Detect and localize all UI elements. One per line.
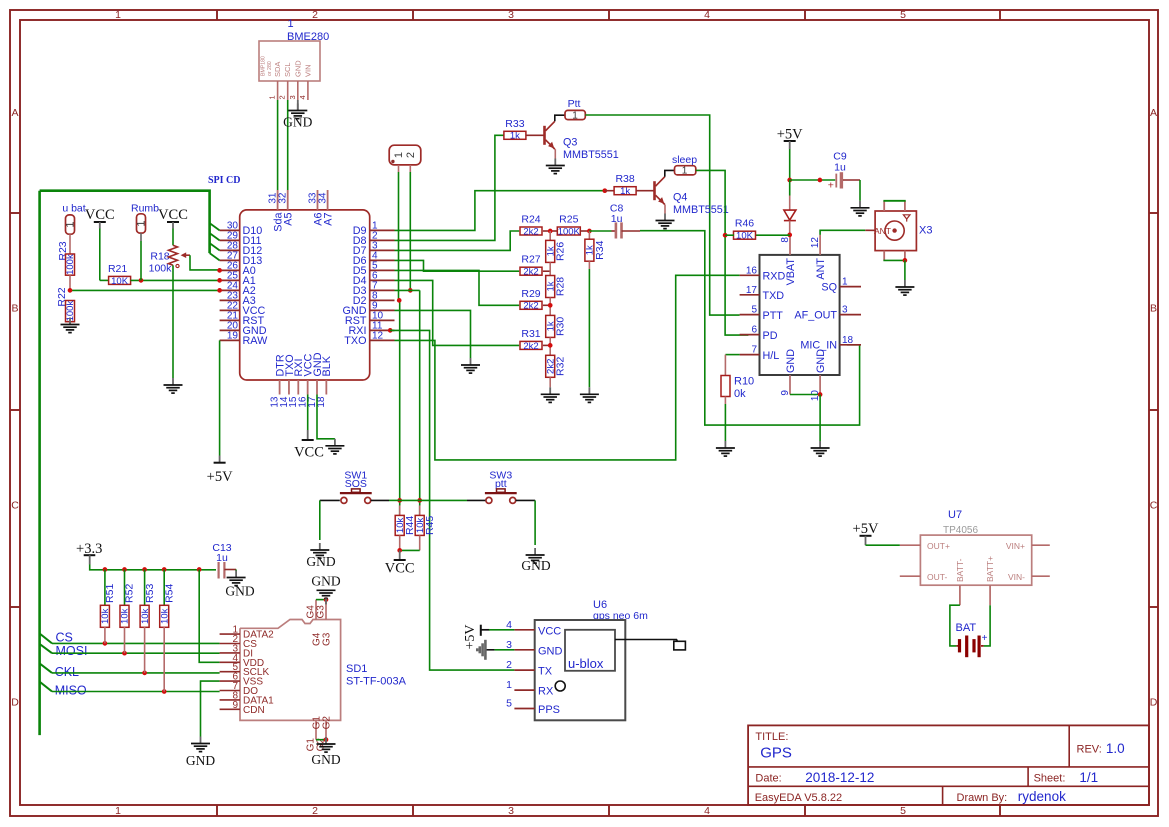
svg-text:R31: R31 — [521, 328, 540, 340]
wire MCU pin17 to ground — [317, 395, 335, 439]
wire D4 to R31 — [395, 280, 520, 345]
wire VCC1 to R21 — [99, 229, 101, 281]
wire sleep to R46 junction and radio PD — [696, 170, 749, 335]
svg-text:R53: R53 — [144, 584, 156, 603]
svg-text:10k: 10k — [159, 608, 170, 624]
wire TXO to radio RXD — [395, 275, 740, 460]
net MOSI — [40, 627, 220, 658]
svg-text:7: 7 — [751, 345, 757, 356]
ground MCU pin17 — [325, 439, 344, 454]
resistor R32 2k2 — [545, 355, 566, 377]
svg-text:2: 2 — [506, 659, 512, 671]
battery charger U7 TP4056 — [920, 509, 1031, 585]
svg-text:R54: R54 — [163, 584, 175, 603]
svg-text:R33: R33 — [505, 118, 524, 130]
wire D3 to R45 SW3 column — [395, 290, 423, 515]
svg-text:GND: GND — [283, 115, 312, 130]
svg-text:2: 2 — [312, 805, 318, 817]
svg-text:Date:: Date: — [755, 773, 781, 785]
svg-text:R51: R51 — [104, 584, 116, 603]
svg-text:MISO: MISO — [55, 684, 87, 698]
svg-text:GND: GND — [815, 349, 827, 373]
svg-text:R45: R45 — [424, 516, 436, 535]
wire C13 to ground — [235, 570, 237, 572]
antenna connector X3 — [874, 201, 932, 251]
svg-text:GND: GND — [306, 554, 335, 569]
ground at BME280 pin3 — [297, 100, 299, 110]
svg-text:R27: R27 — [521, 254, 540, 266]
svg-text:A7: A7 — [322, 213, 334, 226]
svg-text:Ptt: Ptt — [568, 98, 581, 110]
radio module box — [760, 255, 840, 375]
svg-text:X3: X3 — [919, 225, 932, 237]
svg-text:GND: GND — [538, 645, 563, 657]
title block — [748, 725, 1149, 805]
svg-text:BATT+: BATT+ — [985, 556, 995, 582]
MCU top pins 31-34 — [267, 190, 334, 232]
wire +3.3 rail — [90, 565, 216, 572]
MCU bottom pins 13-18 — [269, 352, 333, 407]
wire R10 to ground — [724, 397, 726, 442]
svg-text:R28: R28 — [555, 277, 567, 296]
svg-text:TX: TX — [538, 666, 553, 678]
resistor R53 10k — [140, 570, 156, 628]
svg-text:5: 5 — [900, 9, 906, 21]
wire R18 bottom to ground — [172, 265, 174, 378]
resistor R21 10K — [108, 263, 131, 287]
svg-text:C: C — [1150, 500, 1158, 512]
svg-text:100K: 100K — [558, 226, 581, 237]
svg-text:1: 1 — [572, 110, 578, 121]
resistor R30 1k — [545, 315, 566, 337]
GPS module U6 gps neo 6m — [535, 599, 686, 720]
wire +5V to GPS VCC — [489, 629, 514, 631]
svg-text:OUT-: OUT- — [927, 572, 947, 582]
svg-text:VIN-: VIN- — [1008, 572, 1025, 582]
resistor R34 1k — [585, 231, 606, 261]
svg-text:2k2: 2k2 — [523, 301, 538, 312]
svg-text:GND: GND — [311, 752, 340, 767]
svg-text:1u: 1u — [834, 162, 846, 174]
svg-text:u-blox: u-blox — [568, 656, 604, 671]
ground below SD1 — [311, 737, 340, 767]
svg-text:4: 4 — [704, 805, 710, 817]
resistor R44 10k — [395, 505, 416, 535]
wire connector pin1 to D2 and SW1 — [397, 172, 402, 515]
resistor R23 100k — [57, 234, 76, 275]
wire R21 to A1 with Rumb — [131, 278, 222, 283]
wire C8 to MIC_IN — [640, 231, 860, 425]
power flag +5V TP4056 — [853, 521, 879, 545]
ground above SD1 — [311, 574, 340, 605]
wire R38 to Q4 base — [636, 190, 655, 192]
ground below R34 — [580, 387, 599, 402]
svg-text:MMBT5551: MMBT5551 — [563, 149, 619, 161]
wire R44 R45 bottoms to VCC — [397, 535, 419, 552]
capacitor C9 1u polarized — [828, 151, 860, 192]
svg-text:EasyEDA V5.8.22: EasyEDA V5.8.22 — [755, 792, 842, 804]
wire R31 to chain with junction — [543, 337, 553, 355]
svg-text:VBAT: VBAT — [785, 258, 797, 286]
wire RAW to +5V — [219, 340, 221, 455]
svg-text:u bat: u bat — [62, 203, 85, 215]
svg-text:VCC: VCC — [158, 207, 188, 223]
resistor R31 2k2 — [520, 328, 542, 352]
svg-text:B: B — [1150, 303, 1157, 315]
resistor R26 1k — [545, 231, 566, 262]
svg-text:10K: 10K — [111, 276, 129, 287]
svg-text:G3: G3 — [316, 605, 327, 619]
svg-text:32: 32 — [278, 192, 289, 204]
svg-text:ANT: ANT — [815, 258, 827, 280]
wire D8 to R33 — [395, 135, 505, 240]
chain segment R26-R28 — [549, 262, 551, 275]
svg-text:GND: GND — [225, 584, 254, 599]
switch SW1 SOS — [340, 469, 372, 503]
net MISO — [40, 627, 220, 698]
svg-text:1: 1 — [115, 805, 121, 817]
svg-text:1: 1 — [842, 277, 848, 288]
svg-text:MMBT5551: MMBT5551 — [673, 204, 729, 216]
svg-text:1.0: 1.0 — [1106, 741, 1125, 756]
svg-text:R30: R30 — [555, 317, 567, 336]
svg-text:1: 1 — [506, 679, 512, 691]
svg-text:R24: R24 — [521, 214, 540, 226]
wire SW1 left to ground — [320, 500, 340, 540]
svg-text:1/1: 1/1 — [1079, 770, 1098, 785]
svg-text:3: 3 — [508, 805, 514, 817]
svg-text:4: 4 — [704, 9, 710, 21]
power flag VCC left1 — [85, 207, 115, 229]
svg-text:G3: G3 — [322, 632, 333, 646]
wire X3 shield to ground — [883, 251, 907, 280]
svg-text:19: 19 — [227, 331, 239, 342]
ground MCU pin9 net — [461, 358, 480, 373]
svg-text:AF_OUT: AF_OUT — [794, 309, 837, 321]
wire C9 to ground — [859, 180, 861, 201]
svg-text:ANT: ANT — [874, 226, 891, 236]
svg-text:VIN+: VIN+ — [1006, 541, 1025, 551]
ground arrow GPS GND — [477, 640, 514, 660]
radio right pins SQ AF_OUT MIC_IN — [794, 277, 861, 352]
capacitor C13 1u — [212, 542, 236, 579]
power flag +5V left — [207, 456, 233, 486]
TP4056 pins — [900, 545, 1050, 605]
wire BATT- to battery — [950, 605, 960, 646]
junction VBAT R46 — [787, 233, 792, 238]
transistor Q3 MMBT5551 — [545, 121, 619, 161]
svg-text:R25: R25 — [559, 214, 578, 226]
resistor R10 0k — [721, 376, 754, 401]
svg-text:R52: R52 — [124, 584, 136, 603]
connector Rumb — [131, 203, 159, 234]
power flag VCC below MCU — [294, 430, 324, 460]
power flag VCC below R44 — [385, 550, 415, 576]
svg-text:REV:: REV: — [1077, 744, 1102, 756]
svg-text:BATT-: BATT- — [955, 558, 965, 582]
svg-text:VCC: VCC — [294, 444, 324, 460]
svg-text:RAW: RAW — [243, 335, 269, 347]
power flag VCC left2 — [158, 207, 188, 229]
SD1 left pins 1-9 — [220, 625, 275, 716]
svg-text:D: D — [1150, 697, 1158, 709]
ground below R32 — [541, 387, 560, 402]
ground below R18 — [164, 378, 183, 393]
svg-text:or 280: or 280 — [267, 61, 273, 76]
svg-text:2: 2 — [405, 152, 417, 158]
svg-text:R26: R26 — [555, 242, 567, 261]
wire SW3 left lead — [467, 499, 485, 501]
ground below R22 — [61, 318, 80, 333]
svg-text:1: 1 — [135, 220, 147, 226]
svg-text:SQ: SQ — [821, 281, 837, 293]
sensor module BME280 — [259, 18, 329, 81]
wire BME280 SDA to MCU pin31 — [277, 100, 279, 190]
wire BATT+ to battery — [984, 605, 991, 646]
svg-text:5: 5 — [506, 698, 512, 710]
svg-text:C: C — [11, 500, 19, 512]
wire MCU GND9 to ground — [395, 310, 471, 358]
svg-text:SOS: SOS — [345, 478, 367, 490]
svg-text:RX: RX — [538, 686, 554, 698]
svg-text:Rumb: Rumb — [131, 203, 159, 215]
svg-text:10k: 10k — [120, 608, 131, 624]
connector J 2pin — [389, 145, 421, 172]
SD1 bottom pins G1 G2 — [306, 716, 333, 752]
svg-text:SCL: SCL — [283, 62, 292, 77]
svg-text:9: 9 — [780, 390, 791, 396]
svg-text:R34: R34 — [594, 240, 606, 259]
wire BME280 SCL to MCU pin32 — [287, 100, 289, 190]
switch SW3 ptt — [485, 469, 517, 503]
wire VCC2 to R18 — [172, 229, 174, 246]
svg-text:OUT+: OUT+ — [927, 541, 950, 551]
svg-text:1: 1 — [268, 95, 277, 99]
svg-text:D: D — [11, 697, 19, 709]
wire R33 to Q3 base — [526, 134, 545, 136]
svg-text:5: 5 — [900, 805, 906, 817]
svg-text:VCC: VCC — [538, 625, 561, 637]
svg-text:TXD: TXD — [763, 290, 785, 302]
wire SD top pins to ground — [316, 597, 328, 602]
svg-text:R32: R32 — [555, 357, 567, 376]
svg-text:100k: 100k — [65, 254, 76, 275]
svg-text:SDA: SDA — [273, 62, 282, 77]
svg-text:Q4: Q4 — [673, 192, 687, 204]
wire R22 junction to A2 — [68, 288, 222, 293]
resistor R38 1k — [605, 173, 636, 197]
connector Ptt — [565, 98, 585, 121]
wire SD bottom pins to ground — [316, 737, 328, 742]
svg-text:GPS: GPS — [760, 745, 792, 762]
svg-text:A5: A5 — [283, 213, 295, 226]
svg-text:RXD: RXD — [763, 271, 786, 283]
svg-text:R10: R10 — [734, 376, 754, 388]
svg-text:2: 2 — [312, 9, 318, 21]
svg-text:rydenok: rydenok — [1018, 789, 1066, 804]
svg-text:1: 1 — [64, 221, 76, 227]
wire SW1 right to R44 column — [371, 499, 400, 501]
svg-text:18: 18 — [842, 335, 854, 346]
radio left pins RXD TXD PTT PD H/L — [740, 265, 786, 362]
wire Q4 collector to sleep — [665, 170, 675, 176]
svg-text:BAT: BAT — [956, 622, 977, 634]
svg-text:Q3: Q3 — [563, 137, 577, 149]
svg-text:1: 1 — [682, 166, 688, 177]
svg-text:B: B — [11, 303, 18, 315]
svg-text:U7: U7 — [948, 509, 962, 521]
wire radio ANT to X3 — [820, 230, 865, 235]
diode D VBAT — [784, 180, 796, 235]
svg-text:3: 3 — [842, 305, 848, 316]
svg-text:PD: PD — [763, 330, 778, 342]
svg-text:MOSI: MOSI — [56, 644, 88, 658]
svg-text:SPI CD: SPI CD — [208, 175, 241, 186]
svg-text:+5V: +5V — [463, 624, 478, 649]
svg-text:A: A — [11, 107, 18, 119]
svg-text:TITLE:: TITLE: — [755, 731, 788, 743]
resistor R28 1k — [545, 276, 566, 298]
wire Q4 emitter to ground — [664, 205, 666, 214]
svg-text:R21: R21 — [108, 263, 127, 275]
svg-text:Drawn By:: Drawn By: — [957, 792, 1008, 804]
wire RXI to GPS TX — [388, 328, 515, 670]
MCU right pins 1-12 — [343, 221, 395, 348]
battery BAT — [956, 622, 988, 657]
resistor R54 10k — [159, 570, 175, 628]
svg-text:1: 1 — [287, 18, 293, 30]
svg-text:SD1: SD1 — [346, 663, 367, 675]
svg-text:2k2: 2k2 — [523, 341, 538, 352]
resistor R25 100K — [557, 214, 580, 238]
svg-text:12: 12 — [372, 331, 384, 342]
wire connector pin2 to D3 — [408, 172, 413, 293]
wire R45 column to SW3 — [420, 499, 467, 501]
svg-text:1: 1 — [393, 152, 405, 158]
wire R46 to VBAT — [755, 234, 790, 236]
svg-text:BMP180: BMP180 — [261, 56, 267, 76]
MCU left pins 30-19 — [220, 221, 268, 348]
wire R24 to chain junction — [543, 229, 558, 234]
net CKL — [40, 627, 220, 679]
svg-text:GND: GND — [521, 558, 550, 573]
svg-text:VCC: VCC — [85, 207, 115, 223]
svg-text:CDN: CDN — [243, 705, 265, 716]
wire junction to C9 — [790, 178, 836, 183]
junction R25 right — [580, 229, 592, 234]
ground below R10 — [716, 441, 735, 456]
svg-text:4: 4 — [298, 95, 307, 99]
resistor R33 1k — [504, 118, 526, 142]
ground at Q4 — [656, 214, 675, 229]
svg-text:8: 8 — [780, 237, 791, 243]
resistor R52 10k — [120, 570, 136, 628]
svg-text:sleep: sleep — [672, 154, 697, 166]
wire sleep net to R46 — [725, 234, 734, 236]
wire D7 to R24 — [395, 231, 520, 250]
svg-text:+5V: +5V — [207, 469, 233, 485]
radio bottom pins GND GND — [780, 349, 827, 401]
svg-text:3: 3 — [508, 9, 514, 21]
svg-text:GND: GND — [293, 60, 302, 77]
junction on R38 wire — [602, 188, 607, 193]
capacitor C8 1u — [589, 203, 640, 239]
wire +5V to OUT+ — [866, 544, 900, 546]
svg-text:GND: GND — [186, 753, 215, 768]
svg-text:10k: 10k — [140, 608, 151, 624]
svg-text:2: 2 — [278, 95, 287, 99]
SD card SD1 ST-TF-003A box — [240, 620, 407, 721]
svg-text:2k2: 2k2 — [523, 267, 538, 278]
resistor R22 100k — [56, 275, 76, 324]
svg-text:R46: R46 — [735, 218, 754, 230]
svg-text:+5V: +5V — [853, 521, 879, 537]
resistor R45 10k — [415, 505, 436, 535]
svg-text:+: + — [828, 180, 834, 192]
wire Ptt to radio PTT pin — [585, 115, 739, 315]
wire D6 to R27 — [395, 260, 520, 271]
svg-text:2k2: 2k2 — [523, 226, 538, 237]
wire R34 to ground — [588, 261, 590, 387]
ground at Q3 — [546, 159, 565, 174]
resistor R51 10k — [100, 570, 116, 628]
wire radio grounds — [790, 392, 822, 441]
power flag +3.3 — [76, 541, 102, 565]
svg-text:3: 3 — [288, 95, 297, 99]
ground at C13 — [225, 571, 254, 599]
svg-text:BLK: BLK — [321, 355, 333, 376]
radio top pins VBAT ANT — [780, 235, 827, 286]
svg-text:PPS: PPS — [538, 704, 560, 716]
svg-text:34: 34 — [317, 192, 328, 204]
wire Rumb to A1 junction — [140, 233, 142, 280]
wire Q3 emitter to ground — [554, 149, 556, 158]
svg-text:1k: 1k — [510, 131, 520, 142]
svg-text:VIN: VIN — [303, 64, 312, 77]
svg-text:CS: CS — [56, 631, 73, 645]
svg-text:10k: 10k — [100, 608, 111, 624]
svg-text:0k: 0k — [734, 388, 746, 400]
power flag +5V radio — [777, 127, 803, 150]
wire +5V to diode junction — [787, 149, 792, 182]
ground at X3 — [895, 280, 914, 295]
wire +3.3 to SD VDD — [199, 570, 219, 663]
svg-text:ST-TF-003A: ST-TF-003A — [346, 676, 407, 688]
wire R27 to chain — [543, 270, 550, 272]
resistor R46 10K — [734, 218, 756, 242]
svg-text:ptt: ptt — [495, 478, 507, 490]
wire SD VSS to ground — [201, 681, 220, 736]
svg-text:17: 17 — [746, 285, 758, 296]
svg-text:1: 1 — [115, 9, 121, 21]
ground radio pins 9 10 — [811, 441, 830, 456]
transistor Q4 MMBT5551 — [655, 177, 729, 216]
wire R32 to ground — [549, 377, 551, 387]
svg-text:Sheet:: Sheet: — [1034, 773, 1066, 785]
ground SD VSS — [186, 737, 215, 769]
svg-text:6: 6 — [751, 325, 757, 336]
svg-text:CKL: CKL — [55, 665, 79, 679]
ground at C9 — [851, 201, 870, 216]
svg-text:G2: G2 — [322, 716, 333, 730]
resistor R27 2k2 — [520, 254, 542, 278]
wire between R44 and R45 columns — [400, 499, 420, 501]
svg-text:TXO: TXO — [344, 335, 366, 347]
svg-text:10K: 10K — [736, 231, 754, 242]
ground at SW1 — [306, 543, 335, 569]
svg-text:R29: R29 — [521, 288, 540, 300]
wire MCU pin16 to VCC flag — [307, 395, 309, 431]
